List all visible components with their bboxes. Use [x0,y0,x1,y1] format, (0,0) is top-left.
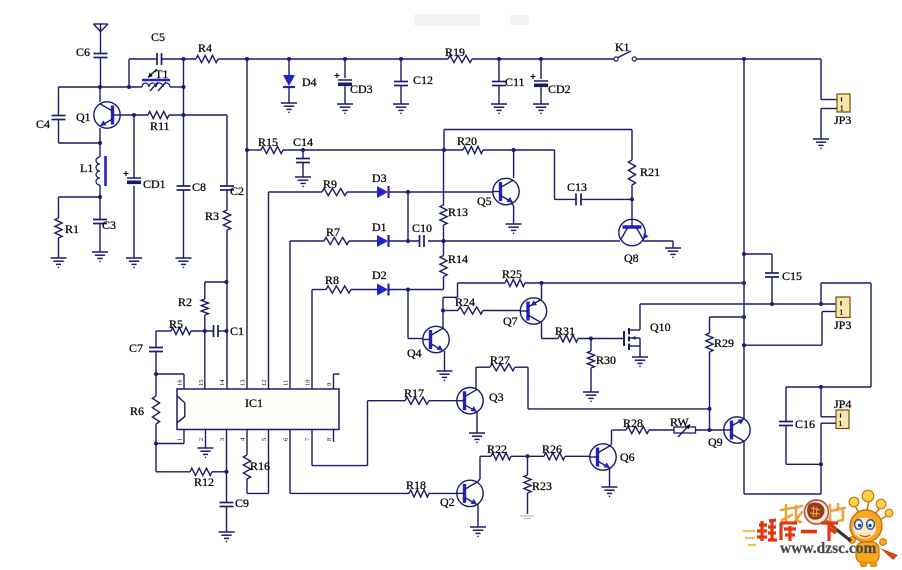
svg-text:R31: R31 [555,324,575,338]
svg-text:www.dzsc.com: www.dzsc.com [780,540,877,557]
wire: C5 right to R4 along top rail [162,58,196,60]
wire: IC pin6 route to R18 row [290,430,409,494]
watermark mascot [849,490,898,567]
wire: C5 branch up from y87 row [129,59,157,87]
wire: antenna stem down to C6 [100,32,102,55]
wire: R14 leads down to D2 row [443,241,445,290]
wire: Q5 collector node to C13 row [514,150,576,199]
svg-text:T1: T1 [155,67,168,81]
capacitor C6 [76,45,108,59]
svg-text:JP3: JP3 [834,318,851,332]
svg-text:11: 11 [283,380,290,386]
wire: C4 branch x58 [59,87,101,143]
svg-text:C10: C10 [412,221,432,235]
wire: R22 row to R26 to Q6 base [480,455,590,457]
wire: C16 bottom row to x821 node [786,463,821,465]
wire: R29 bottom to R27 row and down to RW row [528,352,710,430]
svg-text:CD1: CD1 [143,177,166,191]
transistor Q9 [708,417,750,449]
resistor R5 [169,317,191,335]
svg-text:R4: R4 [198,41,212,55]
wire: x183.5 vertical C5node-T1node-R11node down to C8 [183,59,185,258]
wire: top rail K1 to right corner, down to JP3 pins [637,59,822,100]
wire: Q5 emitter to ground [511,203,514,225]
wire: D3 row from pin12 corner to Q5 base [269,192,493,389]
wire: Q10 source to ground [639,346,641,357]
wire: R1 leads [58,197,60,258]
wire: far right horizontal y387 to C16 [786,386,871,388]
transistor Q3 [457,388,504,414]
svg-text:CD3: CD3 [350,82,373,96]
svg-text:L1: L1 [80,161,93,175]
wire: R13 leads [443,150,445,241]
transistor Q1 [76,102,120,128]
ground for R30 [583,392,599,401]
svg-text:C4: C4 [36,117,50,131]
wire: JP3 upper pin leads [821,100,837,140]
svg-text:Q4: Q4 [407,346,422,360]
svg-text:C13: C13 [567,180,587,194]
wire: pin3 vertical down through R12 row to C9 [226,430,228,533]
ground for Q4 [437,371,453,380]
wire: JP4 pin2 jog down [821,423,836,464]
transistor Q8 [619,219,649,265]
svg-text:R1: R1 [65,222,79,236]
wire: Q8 emitter to ground [643,241,673,248]
capacitor C14 [293,135,313,163]
wire: R25 row to main rail [458,282,745,284]
wire: R28 to RW [649,429,674,431]
wire: CD1 branch down from base row [133,115,135,258]
svg-text:R20: R20 [457,134,477,148]
svg-text:C9: C9 [235,496,249,510]
svg-text:R23: R23 [532,479,552,493]
svg-text:C11: C11 [505,75,525,89]
svg-text:Q7: Q7 [503,314,518,328]
resistor R6 [130,396,160,424]
resistor R14 [440,252,468,277]
wire: top rail R4 to K1 [218,58,614,60]
wire: R2 branch [205,282,227,331]
wire: D2 node down to Q4 base [408,290,423,339]
resistor R1 [55,218,79,238]
svg-text:C8: C8 [192,180,206,194]
resistor R31 [555,324,578,342]
wire: D1 row from pin11 corner to Q8 collector [290,241,620,389]
inductor L1 [80,156,106,186]
transistor Q2 [440,480,483,509]
ground for C12 [393,104,409,113]
ground for Q6 [602,487,618,496]
svg-text:3: 3 [219,438,226,441]
ground for D4 [281,103,297,112]
wire: main vertical rail x744 K1 row down to Q9 [743,59,745,418]
ground for CD1 [126,258,142,267]
resistor R7 [324,225,349,245]
capacitor CD3 [335,59,373,104]
wire: L1 bottom to R1/C3 node [59,185,101,220]
resistor R24 [455,295,483,314]
antenna [93,24,108,32]
svg-text:C12: C12 [413,73,433,87]
wire: R17 to Q3 base [429,400,457,402]
wire: Q1 base row to R11 and C2 corner [121,115,228,186]
wire: pin4 R16 U-loop to pin5 [247,430,269,494]
resistor R21 [628,160,660,185]
ground for C9 [219,532,235,541]
wire: R20 to Q5 collector node [444,149,514,151]
wire: R6 bottom to pin1 row and R12 corner [156,424,227,472]
ground for C3 [92,252,108,261]
ground for Q2 [470,527,486,536]
resistor R22 [487,442,511,460]
svg-text:R25: R25 [502,267,522,281]
svg-text:Q6: Q6 [620,450,635,464]
ground for C14 [295,177,311,186]
watermark text zhao-pian [781,504,845,522]
svg-text:CD2: CD2 [548,82,571,96]
wire: R30 leads [590,339,592,393]
svg-text:R16: R16 [250,459,270,473]
svg-text:R29: R29 [714,336,734,350]
wire: C15 branch from main rail [744,254,772,304]
svg-text:IC1: IC1 [245,396,263,410]
svg-text:K1: K1 [615,40,630,54]
mosfet Q10 [624,320,671,350]
wire: R29 top jog to main rail [710,317,745,333]
svg-text:5: 5 [261,438,268,441]
connector JP4 [834,397,851,429]
wire: row y150 R15 C14 to R20 node [247,149,444,151]
ground for CD3 [337,104,353,113]
switch K1 [614,40,637,61]
wire: R24 row to Q7 base [443,310,521,312]
ground for Q10 [632,357,648,366]
wire: pin16 row [156,374,184,389]
svg-text:JP4: JP4 [834,397,851,411]
wire: Q7 emitter up to R25 node [541,283,543,300]
wire: Q7 collector down to R31 row [542,323,559,339]
svg-text:R7: R7 [326,225,340,239]
svg-text:C2: C2 [230,184,244,198]
faint mark below R23 [520,516,534,519]
svg-text:C3: C3 [102,218,116,232]
capacitor C2 [220,184,244,198]
wire: D2 row from pin10 corner to R14 corner [312,290,444,390]
resistor R27 [490,353,515,371]
ground for R1 [51,258,67,267]
resistor R4 [196,41,218,63]
capacitor C1 [214,324,245,338]
capacitor C15 [765,269,802,283]
resistor R23 [524,475,552,493]
ground for Q3 [469,433,485,442]
wire: JP4 pin1 jog up [821,387,836,417]
ground for CD2 [533,104,549,113]
connector JP3 upper [834,94,851,127]
wire: Q3 emitter to ground [476,411,478,433]
svg-text:13: 13 [240,380,247,387]
resistor R17 [404,386,429,404]
resistor R19 [445,45,472,63]
capacitor C11 [492,59,525,104]
wire: top loop above R20 to R21 [444,130,632,161]
resistor R11 [148,111,170,133]
wire: C2 bottom to R3 to pin14 vertical [226,190,228,389]
transistor Q7 [503,298,547,328]
svg-text:12: 12 [261,380,268,387]
transformer T1 [142,67,170,91]
svg-text:C16: C16 [795,417,815,431]
capacitor C3 [93,218,116,232]
resistor R8 [325,273,351,293]
diode D1 [372,220,389,247]
ground for JP3 upper [813,139,829,148]
svg-text:Q2: Q2 [440,495,455,509]
capacitor C13 [567,180,587,205]
wire: Q9 collector down and around to C16 row [744,441,821,494]
resistor R26 [542,442,565,460]
svg-text:R3: R3 [205,209,219,223]
resistor R30 [587,351,616,368]
wire: corner from y304 up and right to far right vertical [821,283,871,387]
svg-text:R24: R24 [455,295,475,309]
wire: R21 bottom node to Q8 base [631,185,633,220]
capacitor C7 [129,341,163,355]
svg-text:14: 14 [219,379,226,386]
svg-text:R2: R2 [178,295,192,309]
svg-text:R17: R17 [404,386,424,400]
wire: Q2 collector up to R22 row [478,456,481,482]
watermark red text weiku-yixia [743,520,838,545]
wire: Q6 emitter to ground [609,468,611,488]
svg-text:R6: R6 [130,404,144,418]
resistor R20 [457,134,483,154]
wire: Q5 collector [513,150,515,178]
svg-text:Q1: Q1 [76,110,91,124]
wire: Q6 collector up to R28 row [610,430,627,447]
resistor R13 [440,205,468,225]
svg-text:1: 1 [840,309,844,317]
watermark pen in mascot hand [837,530,851,541]
watermark url www.dzsc.com [780,540,877,557]
svg-text:10: 10 [305,380,312,387]
wire: pin9 stub [334,374,340,389]
wire: Q3 collector to R27 [476,367,528,389]
resistor R25 [502,267,525,287]
svg-text:RW: RW [670,415,689,429]
svg-text:C15: C15 [782,269,802,283]
wire: R24 node jog up to R25 row [443,283,458,311]
svg-text:C1: C1 [230,324,244,338]
svg-text:D2: D2 [372,268,387,282]
svg-text:Q10: Q10 [650,320,671,334]
svg-text:R13: R13 [448,205,468,219]
capacitor C16 [779,417,815,431]
svg-text:R11: R11 [150,119,170,133]
svg-text:R26: R26 [542,442,562,456]
wire: R18 to Q2 base [429,492,457,494]
svg-text:16: 16 [177,379,184,386]
svg-text:R18: R18 [406,478,426,492]
wire: Q4 emitter to ground [444,351,446,371]
wire: Q4 collector up to R24 node [442,311,444,330]
wire: JP3 lower pin2 jog to main rail [744,312,837,346]
svg-text:R21: R21 [640,165,660,179]
wire: R4 node vertical x247 down to IC pin 13 [246,59,248,389]
svg-text:D3: D3 [372,171,387,185]
wire: Q10 drain up and along y304 to JP3 lower pin1 [640,304,837,330]
wire: Q1 emitter down to L1 [99,128,101,157]
svg-text:Q9: Q9 [708,435,723,449]
svg-text:R12: R12 [194,475,214,489]
svg-text:C5: C5 [151,30,165,44]
svg-text:D1: D1 [372,220,387,234]
wire: pin15 vertical [204,331,206,389]
svg-text:8: 8 [326,438,333,441]
wire: C7 leads and R6 top [155,331,157,396]
svg-text:1: 1 [839,420,843,428]
wire: C3 bottom lead [99,224,101,253]
watermark magnifier [805,500,838,530]
wire: Q2 emitter to ground [477,505,479,528]
svg-text:R5: R5 [169,317,183,331]
svg-text:R22: R22 [487,442,507,456]
wire: C16 leads [785,387,787,464]
svg-text:Q5: Q5 [477,194,492,208]
wire: C10 branch x408 [407,192,409,241]
resistor R18 [406,478,429,497]
svg-text:15: 15 [198,380,205,387]
resistor R16 [243,455,270,479]
svg-text:C7: C7 [129,341,143,355]
svg-text:R30: R30 [596,353,616,367]
wire: R27 right corner down [527,367,529,409]
capacitor CD2 [531,59,571,104]
capacitor C5 [151,30,165,65]
resistor R3 [205,209,231,230]
svg-text:9: 9 [326,383,333,386]
svg-text:C14: C14 [293,135,313,149]
wire: C13 to R21 bottom node [582,198,633,200]
connector JP3 lower [834,297,851,332]
svg-text:JP3: JP3 [834,113,851,127]
wire: R23 leads [527,456,529,514]
ground for IC pin2 [198,448,214,457]
svg-text:C6: C6 [76,45,90,59]
svg-text:Q8: Q8 [624,251,639,265]
wire: C6 to node at y87 [100,58,102,88]
resistor R29 [706,333,734,352]
capacitor C9 [220,496,250,510]
capacitor C4 [36,116,66,132]
transistor Q6 [590,444,635,470]
faint watermark text top center [414,14,529,26]
capacitor C10 [412,221,432,247]
resistor R28 [623,416,649,434]
resistor R2 [178,295,208,315]
wire: pin2 stub to ground [205,430,207,449]
svg-text:R27: R27 [490,353,510,367]
wire: C14 leads [302,150,304,177]
capacitor C12 [394,59,433,104]
svg-text:R8: R8 [325,273,339,287]
ground for Q8 [665,248,681,257]
svg-text:1: 1 [177,438,184,441]
ground for C11 [491,104,507,113]
svg-text:R19: R19 [445,45,465,59]
wire: row y87 from C4 branch to T1 and x183 vertical [59,86,184,88]
transistor Q4 [407,326,449,360]
ground for Q5 [506,224,522,233]
resistor R15 [258,135,283,154]
capacitor CD1 [124,171,166,191]
resistor R9 [322,177,347,196]
diode D3 [372,171,389,198]
wire: R5 row corner [156,330,227,332]
resistor R12 [190,468,214,489]
transistor Q5 [477,178,519,208]
potentiometer RW [670,415,696,437]
wire: R31 to Q10 gate [578,338,624,340]
wire: IC pin7 route to R17 row [312,401,405,466]
IC U1 labelled IC1 [177,379,340,441]
svg-text:2: 2 [198,438,205,441]
diode D2 [372,268,389,296]
wire: RW to Q9 base [696,429,724,431]
svg-text:R9: R9 [323,177,337,191]
zener D4 [283,59,317,103]
svg-text:R15: R15 [258,135,278,149]
wire: Q1 collector up to y87 node [99,87,101,102]
svg-text:R14: R14 [448,252,468,266]
svg-text:1: 1 [840,105,844,113]
svg-text:R28: R28 [623,416,643,430]
svg-text:Q3: Q3 [489,390,504,404]
ground for C8 [176,258,192,267]
capacitor C8 [177,180,207,194]
svg-text:D4: D4 [302,75,317,89]
wire: pin8 stub [333,430,335,443]
